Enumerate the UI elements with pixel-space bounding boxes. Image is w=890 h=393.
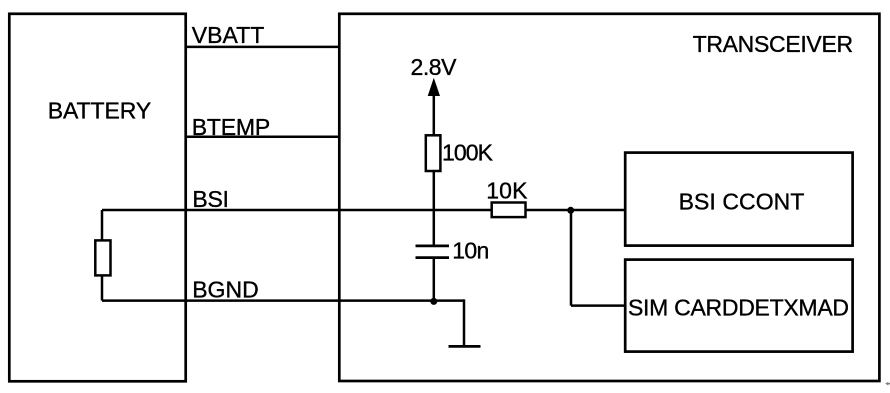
svg-text:SIM CARDDETXMAD: SIM CARDDETXMAD <box>628 294 849 320</box>
svg-text:100K: 100K <box>442 140 494 166</box>
svg-text:TRANSCEIVER: TRANSCEIVER <box>693 31 854 57</box>
svg-text:2.8V: 2.8V <box>411 54 458 80</box>
svg-text:BGND: BGND <box>192 277 259 303</box>
svg-text:10K: 10K <box>486 178 528 204</box>
svg-text:BSI CCONT: BSI CCONT <box>679 188 805 214</box>
svg-text:BATTERY: BATTERY <box>48 97 152 123</box>
svg-text:VBATT: VBATT <box>192 22 264 48</box>
svg-text:BSI: BSI <box>192 186 229 212</box>
svg-text:BTEMP: BTEMP <box>192 114 271 140</box>
svg-text:10n: 10n <box>452 237 489 263</box>
